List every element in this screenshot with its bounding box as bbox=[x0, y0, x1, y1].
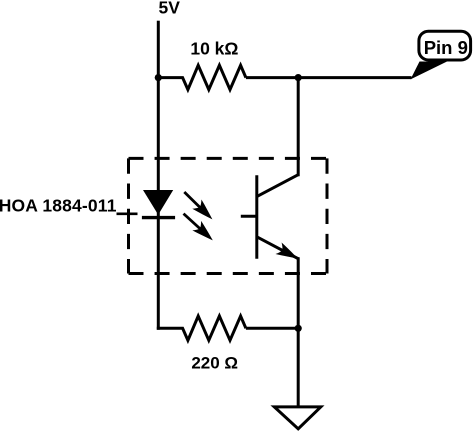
svg-text:220 Ω: 220 Ω bbox=[191, 354, 238, 373]
transistor Q1 base stub bbox=[241, 215, 257, 218]
svg-text:5V: 5V bbox=[159, 0, 181, 18]
node A junction dot bbox=[155, 74, 162, 81]
LED emission arrow 1 head bbox=[192, 199, 217, 224]
ground symbol bbox=[274, 407, 321, 429]
wire: resistor R1 to node B bbox=[246, 76, 298, 79]
LED emission arrow 2 head bbox=[192, 221, 217, 245]
svg-text:Pin 9: Pin 9 bbox=[424, 37, 468, 58]
transistor Q1 base bar bbox=[255, 175, 258, 259]
node B junction dot bbox=[295, 74, 302, 81]
transistor Q1 emitter diagonal bbox=[257, 237, 298, 259]
wire: node B down to transistor collector bbox=[297, 78, 300, 177]
svg-text:10 kΩ: 10 kΩ bbox=[190, 39, 238, 59]
LED D1 anode triangle bbox=[143, 190, 173, 215]
svg-text:HOA 1884-011: HOA 1884-011 bbox=[0, 195, 117, 215]
wire: left vertical through LED down to bottom-left corner bbox=[157, 78, 160, 330]
resistor R1 10 kΩ (zigzag with leads) bbox=[158, 65, 246, 89]
node C junction dot bbox=[295, 325, 302, 332]
node label Pin 9 callout tail bbox=[411, 62, 448, 80]
transistor Q1 emitter arrowhead bbox=[275, 243, 300, 265]
wire: node C down to ground bbox=[297, 328, 300, 407]
LED emission arrow 2 shaft bbox=[184, 214, 205, 233]
wire: 5V supply down to node A bbox=[157, 21, 160, 78]
label connector line to optocoupler box bbox=[117, 213, 138, 216]
wire: emitter down to node C bbox=[297, 257, 300, 328]
wire: resistor R2 to node C bbox=[246, 327, 298, 330]
wire: node B to Pin 9 callout tail bbox=[298, 76, 411, 79]
optocoupler U1 dashed outline box bbox=[129, 158, 328, 273]
LED emission arrow 1 shaft bbox=[184, 192, 204, 212]
transistor Q1 collector diagonal bbox=[257, 175, 298, 197]
LED D1 cathode bar bbox=[142, 216, 175, 219]
node label Pin 9 rounded box bbox=[419, 31, 471, 60]
resistor R2 220 Ω (zigzag with leads) bbox=[157, 316, 246, 340]
